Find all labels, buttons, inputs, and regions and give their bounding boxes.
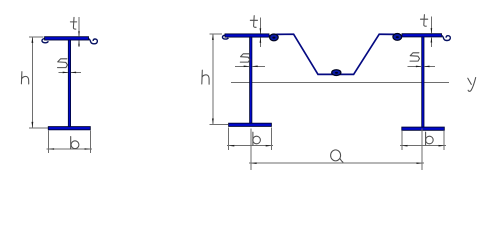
extension line h top (left figure) [29, 36, 43, 38]
arrow t up (left pile) [260, 37, 262, 42]
extension line b left (left pile) [228, 128, 230, 150]
dimension line b (right pile) [400, 145, 446, 147]
extension line b right (left figure) [89, 131, 91, 153]
extension line a right [421, 128, 423, 170]
extension line h bottom (right figure) [210, 123, 228, 125]
label y [468, 78, 476, 92]
web (right pile) [422, 37, 424, 127]
dimension line s right segment (right pile) [424, 65, 435, 67]
arrow t down (left figure) [78, 31, 80, 36]
left hook curl (left figure) [42, 38, 48, 42]
dimension line s left segment (right pile) [408, 65, 422, 67]
top flange (left figure) [45, 37, 89, 40]
dimension line t lower (left pile) [259, 38, 261, 48]
dimension line h (right figure) [212, 34, 214, 124]
label s (right pile) [410, 53, 420, 61]
label s (left pile) [240, 54, 250, 62]
right edge curl (left figure) [88, 39, 97, 44]
left hook curl (left pile) [222, 35, 228, 39]
arrow b left (right pile) [402, 145, 408, 147]
bottom flange (right pile) [402, 127, 445, 130]
arrow t up (left figure) [78, 40, 80, 45]
arrow t up (right pile) [431, 37, 433, 42]
label t (right pile) [421, 15, 428, 27]
interlock knot middle inner [335, 72, 338, 74]
arrow s left (left figure) [71, 72, 77, 74]
arrow h up (right figure) [212, 34, 214, 40]
arrow b left (left pile) [229, 145, 235, 147]
arrow b right (left figure) [85, 148, 91, 150]
flange end drop into interlock (left pile) [269, 35, 271, 38]
connecting sheet (V web) [276, 34, 394, 74]
arrow t down (right pile) [431, 28, 433, 33]
arrow s left (left pile) [252, 66, 258, 68]
interlock knot middle [332, 70, 341, 76]
arrow a left [251, 162, 257, 164]
label b (left pile) [253, 132, 261, 145]
label t (left figure) [70, 17, 76, 29]
arrow s right (left figure) [63, 72, 68, 74]
dimension line b (left pile) [227, 145, 273, 147]
interlock knot right inner [396, 36, 399, 38]
dimension line t upper (left figure) [78, 17, 80, 37]
dimension line t lower (right pile) [430, 37, 432, 47]
extension line b left (right pile) [401, 131, 403, 150]
label a [331, 150, 343, 162]
dimension line t upper (right pile) [430, 17, 432, 34]
dimension line s right segment (left pile) [252, 65, 265, 67]
dimension line t lower (left figure) [78, 40, 80, 47]
right edge curl (right pile) [441, 35, 450, 40]
extension line b right (left pile) [270, 128, 272, 150]
arrow b left (left figure) [49, 148, 55, 150]
dimension line h (left figure) [31, 37, 33, 127]
web (left figure) [68, 40, 70, 127]
label b (right pile) [426, 132, 434, 145]
extension line b right (right pile) [443, 131, 445, 150]
web (left pile) [250, 37, 252, 123]
extension line h top (right figure) [210, 33, 222, 35]
label b (left figure) [71, 137, 79, 149]
arrow h down (right figure) [212, 119, 214, 125]
dimension line a [249, 162, 424, 164]
arrow t down (left pile) [260, 28, 262, 33]
arrow s right (right pile) [416, 66, 422, 68]
dimension line s right segment (left figure) [71, 71, 81, 73]
label h (right figure) [202, 70, 209, 84]
label h (left figure) [21, 72, 28, 84]
dimension line t upper (left pile) [259, 18, 261, 34]
arrow a right [417, 162, 423, 164]
arrow s left (right pile) [424, 66, 430, 68]
extension line b left (left figure) [47, 131, 49, 153]
arrow b right (left pile) [266, 145, 272, 147]
interlock knot left inner [272, 37, 275, 39]
top flange (right pile) [402, 34, 442, 37]
label t (left pile) [250, 16, 257, 28]
arrow h down (left figure) [32, 122, 34, 128]
extension line a left [250, 128, 252, 170]
dimension line b (left figure) [47, 148, 92, 150]
y axis line [231, 82, 449, 84]
top flange (left pile) [225, 34, 269, 37]
interlock knot left [270, 34, 279, 41]
label s (left figure) [58, 59, 68, 68]
arrow s right (left pile) [244, 66, 250, 68]
dimension line s left segment (left figure) [59, 71, 69, 73]
arrow h up (left figure) [32, 37, 34, 43]
extension line h bottom (left figure) [29, 127, 48, 129]
interlock knot right [393, 34, 402, 41]
bottom flange (left pile) [229, 123, 272, 126]
dimension line s left segment (left pile) [235, 65, 249, 67]
arrow b right (right pile) [439, 145, 445, 147]
bottom flange (left figure) [48, 127, 90, 130]
